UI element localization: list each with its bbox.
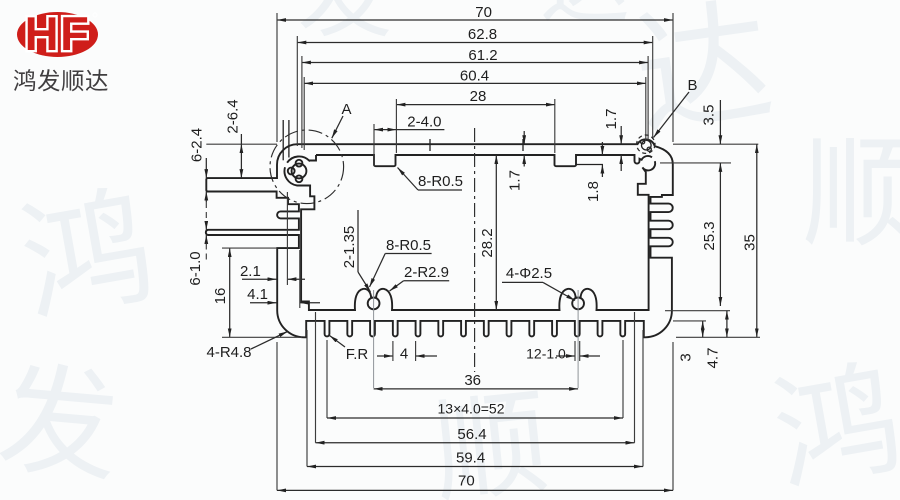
svg-text:鸿发顺达: 鸿发顺达 xyxy=(13,68,109,94)
svg-text:6-1.0: 6-1.0 xyxy=(187,251,204,285)
svg-text:4-R4.8: 4-R4.8 xyxy=(206,344,251,361)
svg-text:56.4: 56.4 xyxy=(457,426,486,443)
svg-text:70: 70 xyxy=(475,4,492,21)
svg-text:鸿: 鸿 xyxy=(10,173,163,339)
svg-text:36: 36 xyxy=(464,372,481,389)
svg-text:1.8: 1.8 xyxy=(585,181,602,202)
svg-text:2.1: 2.1 xyxy=(240,263,261,280)
svg-text:F.R: F.R xyxy=(346,346,369,363)
svg-text:16: 16 xyxy=(212,288,229,305)
svg-text:2-1.35: 2-1.35 xyxy=(341,226,358,269)
svg-text:顺: 顺 xyxy=(427,379,555,500)
svg-text:61.2: 61.2 xyxy=(468,47,497,64)
svg-text:顺: 顺 xyxy=(802,127,900,261)
svg-text:发: 发 xyxy=(0,352,124,496)
svg-text:达: 达 xyxy=(540,0,630,35)
svg-text:2-R2.9: 2-R2.9 xyxy=(404,264,449,281)
svg-text:28.2: 28.2 xyxy=(479,228,496,257)
svg-text:35: 35 xyxy=(742,234,759,251)
svg-text:A: A xyxy=(341,101,351,118)
svg-text:6-2.4: 6-2.4 xyxy=(189,128,206,162)
svg-text:12-1.0: 12-1.0 xyxy=(526,346,566,362)
svg-text:4: 4 xyxy=(400,346,408,363)
svg-text:B: B xyxy=(687,77,697,94)
svg-text:28: 28 xyxy=(470,88,487,105)
svg-text:4-Φ2.5: 4-Φ2.5 xyxy=(506,265,552,282)
svg-text:2-4.0: 2-4.0 xyxy=(407,114,441,131)
svg-text:25.3: 25.3 xyxy=(701,221,718,250)
svg-text:发: 发 xyxy=(297,0,392,49)
svg-text:HF: HF xyxy=(25,7,91,60)
svg-text:62.8: 62.8 xyxy=(468,26,497,43)
svg-text:59.4: 59.4 xyxy=(456,450,485,467)
svg-text:3.5: 3.5 xyxy=(701,105,718,126)
svg-text:达: 达 xyxy=(626,0,781,153)
svg-text:2-6.4: 2-6.4 xyxy=(225,99,242,133)
svg-text:8-R0.5: 8-R0.5 xyxy=(418,173,463,190)
svg-text:13×4.0=52: 13×4.0=52 xyxy=(438,401,505,417)
svg-text:3: 3 xyxy=(678,353,695,361)
svg-text:鸿: 鸿 xyxy=(764,349,900,500)
svg-text:60.4: 60.4 xyxy=(460,68,489,85)
svg-text:1.7: 1.7 xyxy=(603,109,620,130)
svg-text:70: 70 xyxy=(458,473,475,490)
svg-text:1.7: 1.7 xyxy=(507,170,524,191)
svg-text:8-R0.5: 8-R0.5 xyxy=(386,237,431,254)
svg-text:4.1: 4.1 xyxy=(247,286,268,303)
svg-text:4.7: 4.7 xyxy=(705,348,722,369)
